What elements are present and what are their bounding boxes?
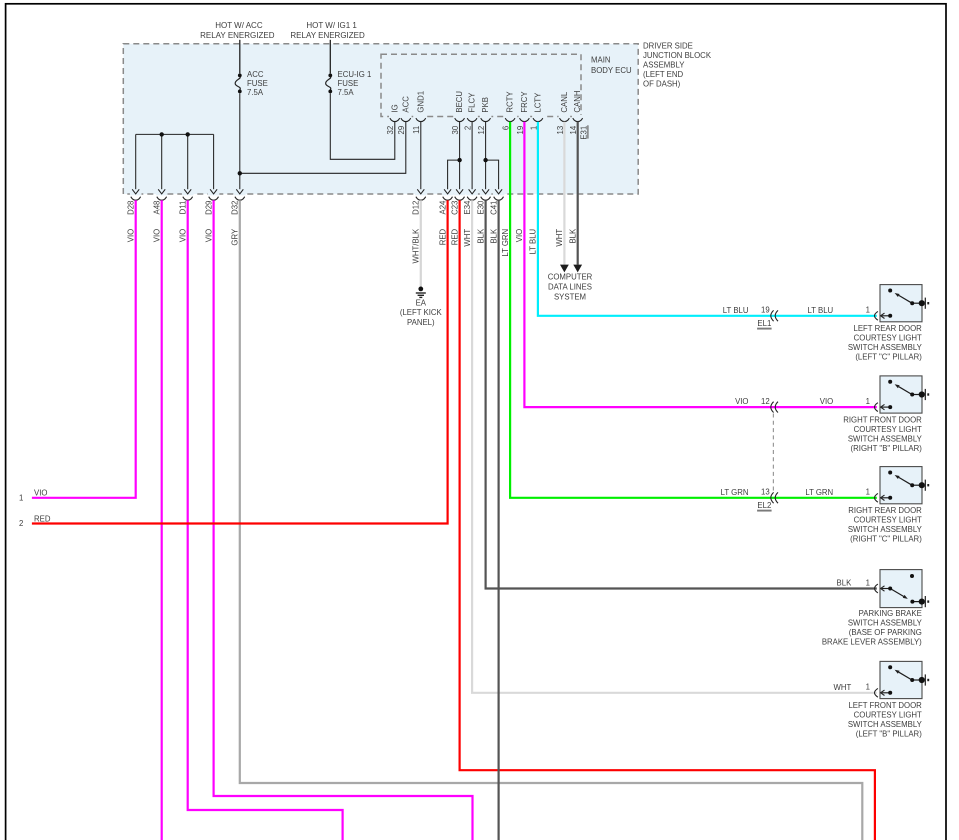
svg-text:OF DASH): OF DASH)	[643, 80, 681, 89]
switch S2 right front door courtesy light	[880, 376, 929, 413]
svg-text:COURTESY LIGHT: COURTESY LIGHT	[854, 516, 922, 525]
svg-text:VIO: VIO	[34, 488, 47, 497]
pin 1 LCTY of main body ECU	[529, 92, 543, 130]
svg-text:12: 12	[477, 126, 486, 135]
pin 11 GND1 of main body ECU	[412, 91, 426, 134]
ECU U1 main body ECU (inner dashed box)	[381, 54, 581, 116]
svg-text:EL1: EL1	[757, 319, 771, 328]
svg-text:1: 1	[19, 493, 23, 502]
arrow to computer data lines (CANL)	[560, 265, 569, 273]
svg-text:RED: RED	[450, 228, 459, 245]
connector E30 (BLK) at junction block edge	[476, 189, 491, 243]
svg-text:DATA LINES: DATA LINES	[548, 283, 592, 292]
svg-text:SWITCH ASSEMBLY: SWITCH ASSEMBLY	[848, 434, 923, 443]
svg-text:C23: C23	[450, 201, 459, 215]
svg-text:VIO: VIO	[179, 229, 188, 242]
svg-text:PKB: PKB	[481, 97, 490, 113]
wire ECU-IG fuse to IG pin	[330, 93, 395, 159]
svg-text:VIO: VIO	[515, 229, 524, 242]
wire VIO D28 to left edge node 1	[32, 200, 136, 498]
svg-text:BRAKE LEVER ASSEMBLY): BRAKE LEVER ASSEMBLY)	[822, 637, 922, 646]
wire BLK CANH	[577, 122, 579, 265]
svg-text:CANL: CANL	[560, 91, 569, 112]
svg-text:SYSTEM: SYSTEM	[554, 293, 586, 302]
svg-text:C41: C41	[489, 201, 498, 215]
svg-text:7.5A: 7.5A	[338, 88, 355, 97]
connector D12 (WHT/BLK) at junction block edge	[412, 189, 427, 263]
svg-text:FRCY: FRCY	[520, 91, 529, 113]
wire WHT CANL	[563, 122, 565, 265]
svg-text:COMPUTER: COMPUTER	[548, 273, 593, 282]
arrow to computer data lines (CANH)	[573, 265, 582, 273]
svg-text:PARKING BRAKE: PARKING BRAKE	[859, 609, 922, 618]
switch S3 right rear door courtesy light	[880, 467, 929, 504]
svg-text:ECU-IG 1: ECU-IG 1	[338, 70, 372, 79]
svg-text:LT GRN: LT GRN	[721, 488, 749, 497]
svg-text:BECU: BECU	[455, 91, 464, 113]
svg-text:FUSE: FUSE	[338, 79, 359, 88]
svg-text:1: 1	[866, 578, 870, 587]
svg-text:FUSE: FUSE	[247, 79, 268, 88]
svg-text:SWITCH ASSEMBLY: SWITCH ASSEMBLY	[848, 525, 923, 534]
svg-text:D28: D28	[127, 201, 136, 215]
svg-text:BLK: BLK	[569, 228, 578, 244]
svg-text:WHT: WHT	[834, 683, 852, 692]
wire BLK E30 to parking brake switch	[486, 200, 877, 588]
pin 30 BECU of main body ECU	[451, 91, 465, 135]
pin 19 FRCY of main body ECU	[516, 91, 530, 135]
switch S4 parking brake	[880, 570, 929, 608]
svg-text:LEFT FRONT DOOR: LEFT FRONT DOOR	[848, 701, 922, 710]
svg-text:VIO: VIO	[153, 229, 162, 242]
svg-text:COURTESY LIGHT: COURTESY LIGHT	[854, 425, 922, 434]
wire GRY D32	[240, 200, 863, 840]
wire LT BLU LCTY to left rear door switch	[538, 122, 877, 316]
pin 29 ACC of main body ECU	[397, 96, 411, 135]
connector D11 (VIO) at junction block edge	[179, 189, 194, 242]
svg-text:2: 2	[19, 519, 23, 528]
svg-text:12: 12	[761, 397, 770, 406]
svg-text:(LEFT KICK: (LEFT KICK	[400, 308, 443, 317]
wire VIO D29	[214, 200, 473, 840]
svg-text:ASSEMBLY: ASSEMBLY	[643, 61, 685, 70]
connector A24 (RED) at junction block edge	[438, 189, 453, 245]
svg-text:D29: D29	[204, 201, 213, 215]
svg-text:BLK: BLK	[476, 228, 485, 244]
junction at ACC fuse branch	[238, 171, 242, 175]
svg-text:CANH: CANH	[573, 91, 582, 113]
svg-text:VIO: VIO	[735, 397, 748, 406]
svg-text:(BASE OF PARKING: (BASE OF PARKING	[849, 628, 922, 637]
svg-text:19: 19	[761, 306, 770, 315]
svg-text:HOT W/ IG1 1: HOT W/ IG1 1	[306, 21, 357, 30]
svg-text:COURTESY LIGHT: COURTESY LIGHT	[854, 710, 922, 719]
svg-text:LT BLU: LT BLU	[529, 228, 538, 254]
svg-text:1: 1	[866, 488, 870, 497]
wire VIO A48	[161, 200, 163, 840]
pin 6 RCTY of main body ECU	[502, 91, 516, 131]
svg-text:E34: E34	[463, 200, 472, 215]
svg-text:BLK: BLK	[489, 228, 498, 244]
svg-text:A48: A48	[153, 201, 162, 215]
pin 2 FLCY of main body ECU	[464, 92, 478, 130]
junction block J1 driver side junction block assembly (dashed box)	[123, 44, 638, 194]
svg-text:29: 29	[397, 126, 406, 135]
svg-text:ACC: ACC	[247, 70, 264, 79]
svg-text:FLCY: FLCY	[468, 92, 477, 113]
svg-text:RELAY ENERGIZED: RELAY ENERGIZED	[200, 31, 275, 40]
svg-text:13: 13	[761, 488, 770, 497]
svg-text:MAIN: MAIN	[591, 56, 611, 65]
svg-text:LT GRN: LT GRN	[805, 488, 833, 497]
svg-text:A24: A24	[438, 200, 447, 215]
svg-text:COURTESY LIGHT: COURTESY LIGHT	[854, 334, 922, 343]
wire GND1 to D12	[420, 122, 422, 189]
svg-text:EL2: EL2	[757, 501, 771, 510]
svg-text:DRIVER SIDE: DRIVER SIDE	[643, 41, 693, 50]
wire VIO D11	[188, 200, 343, 840]
wire feed from IG1 relay	[329, 40, 331, 74]
svg-text:BODY ECU: BODY ECU	[591, 66, 632, 75]
connector E31 label (underlined)	[579, 125, 588, 139]
svg-text:D11: D11	[179, 201, 188, 215]
svg-text:WHT: WHT	[555, 229, 564, 247]
junction on VIO bus	[160, 132, 164, 136]
svg-text:LT GRN: LT GRN	[501, 229, 510, 257]
wire BECU to A24/C23	[459, 122, 461, 189]
pin 12 PKB of main body ECU	[477, 97, 491, 134]
wire VIO bus tying D28 A48 D11 D29	[136, 133, 214, 135]
svg-text:VIO: VIO	[204, 229, 213, 242]
svg-text:VIO: VIO	[820, 397, 833, 406]
connector D29 (VIO) at junction block edge	[204, 189, 219, 242]
junction on VIO bus	[186, 132, 190, 136]
svg-text:RED: RED	[34, 514, 51, 523]
pin 32 IG of main body ECU	[386, 104, 400, 134]
wire feed from ACC relay	[239, 40, 241, 74]
wire WHT/BLK D12 to ground EA	[420, 200, 422, 286]
connector EL2 dashed link	[772, 414, 774, 493]
switch S1 left rear door courtesy light	[880, 285, 929, 322]
svg-text:SWITCH ASSEMBLY: SWITCH ASSEMBLY	[848, 720, 923, 729]
svg-text:GRY: GRY	[231, 228, 240, 246]
wire ACC fuse to ACC pin and D32	[239, 93, 241, 189]
wire VIO FRCY to right front door switch	[524, 122, 876, 407]
svg-text:(LEFT "B" PILLAR): (LEFT "B" PILLAR)	[856, 729, 922, 738]
svg-text:LCTY: LCTY	[533, 92, 542, 113]
svg-text:RIGHT FRONT DOOR: RIGHT FRONT DOOR	[843, 415, 922, 424]
svg-text:E31: E31	[579, 126, 588, 140]
svg-text:(RIGHT "C" PILLAR): (RIGHT "C" PILLAR)	[850, 535, 922, 544]
junction BECU branch	[457, 158, 461, 162]
switch S5 left front door courtesy light	[880, 661, 929, 698]
wire BLK C41	[498, 200, 500, 840]
wire PKB to E30/C41	[485, 122, 487, 189]
svg-text:LT BLU: LT BLU	[723, 306, 749, 315]
wire RED A24 to left edge node 2	[32, 200, 448, 523]
svg-text:RCTY: RCTY	[506, 91, 515, 113]
svg-text:D12: D12	[412, 201, 421, 215]
svg-text:RED: RED	[438, 228, 447, 245]
pin 14 CANH of main body ECU	[569, 91, 583, 135]
fuse F1 ACC FUSE 7.5A	[235, 77, 240, 90]
connector D32 (GRY) at junction block edge	[231, 189, 246, 245]
svg-text:WHT/BLK: WHT/BLK	[412, 228, 421, 263]
svg-text:JUNCTION BLOCK: JUNCTION BLOCK	[643, 51, 712, 60]
svg-text:BLK: BLK	[837, 579, 853, 588]
svg-text:GND1: GND1	[416, 91, 425, 113]
svg-text:VIO: VIO	[127, 229, 136, 242]
svg-text:11: 11	[412, 126, 421, 134]
connector A48 (VIO) at junction block edge	[153, 189, 168, 242]
svg-text:E30: E30	[476, 200, 485, 215]
connector E34 (WHT) at junction block edge	[463, 189, 478, 246]
wire RED C23	[460, 200, 875, 840]
svg-text:EA: EA	[416, 298, 427, 307]
connector D28 (VIO) at junction block edge	[127, 189, 142, 242]
svg-text:(LEFT "C" PILLAR): (LEFT "C" PILLAR)	[855, 353, 922, 362]
svg-text:1: 1	[866, 683, 870, 692]
svg-text:1: 1	[866, 306, 870, 315]
svg-text:LT BLU: LT BLU	[807, 306, 833, 315]
svg-text:RIGHT REAR DOOR: RIGHT REAR DOOR	[848, 506, 922, 515]
svg-text:LEFT REAR DOOR: LEFT REAR DOOR	[853, 324, 922, 333]
connector C23 (RED) at junction block edge	[450, 189, 465, 245]
wire WHT E34 to left front door switch	[472, 200, 877, 693]
junction PKB branch	[483, 158, 487, 162]
svg-text:(RIGHT "B" PILLAR): (RIGHT "B" PILLAR)	[851, 444, 923, 453]
svg-text:RELAY ENERGIZED: RELAY ENERGIZED	[290, 31, 365, 40]
wire LT GRN RCTY to right rear door switch	[510, 122, 877, 498]
svg-text:7.5A: 7.5A	[247, 88, 264, 97]
svg-text:IG: IG	[390, 104, 399, 112]
svg-text:WHT: WHT	[463, 229, 472, 247]
ground EA (left kick panel)	[416, 287, 426, 298]
fuse F2 ECU-IG 1 FUSE 7.5A	[326, 77, 331, 90]
wire FLCY to E34	[471, 122, 473, 189]
svg-text:PANEL): PANEL)	[407, 318, 435, 327]
pin 13 CANL of main body ECU	[556, 91, 570, 134]
svg-text:32: 32	[386, 126, 395, 135]
svg-text:30: 30	[451, 125, 460, 134]
svg-text:D32: D32	[231, 201, 240, 215]
wire color labels for pass-through wires	[501, 228, 578, 257]
svg-text:HOT W/ ACC: HOT W/ ACC	[215, 21, 263, 30]
svg-text:(LEFT END: (LEFT END	[643, 70, 684, 79]
svg-text:ACC: ACC	[401, 96, 410, 113]
svg-text:SWITCH ASSEMBLY: SWITCH ASSEMBLY	[848, 618, 923, 627]
connector C41 (BLK) at junction block edge	[489, 189, 504, 243]
svg-text:1: 1	[866, 397, 870, 406]
svg-text:2: 2	[464, 126, 473, 130]
svg-text:SWITCH ASSEMBLY: SWITCH ASSEMBLY	[848, 343, 923, 352]
